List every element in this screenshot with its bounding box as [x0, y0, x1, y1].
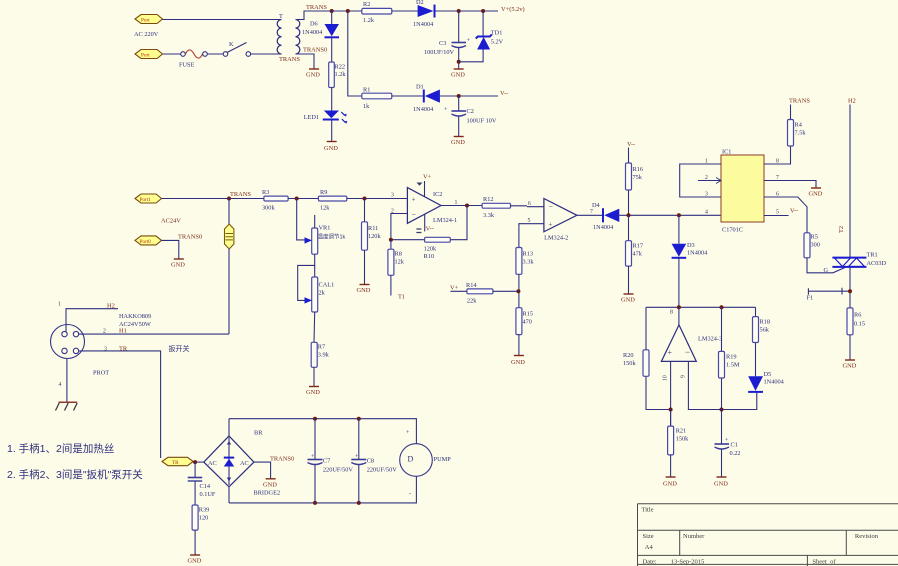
wire switch to transformer primary bottom [251, 53, 282, 55]
svg-text:V+(5.2v): V+(5.2v) [501, 6, 525, 13]
node C14 junction [193, 460, 197, 464]
diode D3 1N4004 [672, 242, 709, 258]
op-amp LM324-1 [407, 188, 457, 224]
svg-text:R22: R22 [335, 64, 346, 71]
svg-text:V--: V-- [627, 141, 635, 148]
earth ground [59, 401, 78, 403]
svg-text:2k: 2k [319, 290, 326, 297]
wire pump bottom rail [229, 476, 416, 503]
svg-text:120: 120 [199, 515, 208, 522]
connector PROT HAKKO809 [51, 313, 152, 377]
fuse FUSE [179, 50, 207, 69]
potentiometer CAL1 [305, 277, 335, 312]
svg-text:Sheet of: Sheet of [812, 559, 836, 566]
thermistor sensor [225, 199, 234, 335]
wire R6 to gnd [849, 335, 851, 360]
resistor R5 [804, 233, 820, 258]
wire D2 to V+ [436, 10, 499, 12]
svg-text:1: 1 [58, 302, 61, 308]
svg-text:R3: R3 [262, 189, 269, 196]
ic U1 C1701C [716, 149, 764, 234]
wire pin6 to R5 [764, 197, 807, 233]
svg-text:V--: V-- [426, 226, 434, 233]
transformer T TRANS [277, 13, 300, 63]
svg-text:5: 5 [776, 210, 779, 216]
resistor R4 [788, 120, 807, 147]
svg-text:Port: Port [141, 18, 150, 24]
node F1 junction [848, 289, 852, 293]
svg-text:F1: F1 [807, 295, 814, 302]
resistor R9 [318, 189, 346, 212]
node C3 junction [457, 9, 461, 13]
node sensor junction [227, 197, 231, 201]
wire D4 to IC1 pin4 [619, 214, 721, 216]
svg-text:2: 2 [103, 329, 106, 335]
svg-text:R21: R21 [676, 428, 687, 435]
capacitor C1 0.22 [715, 437, 741, 458]
resistor R3 [262, 189, 288, 212]
svg-text:V+: V+ [423, 174, 432, 181]
resistor R10 [424, 237, 451, 260]
svg-text:R14: R14 [466, 282, 477, 289]
wire C3 to gnd node [458, 48, 460, 69]
svg-text:AC: AC [208, 460, 217, 467]
triac TR1 AC03D [832, 252, 886, 268]
wire op3 output [678, 307, 680, 325]
svg-text:IC1: IC1 [722, 149, 731, 156]
svg-text:C2: C2 [467, 108, 474, 115]
svg-text:GND: GND [188, 558, 202, 565]
svg-text:C14: C14 [200, 483, 211, 490]
svg-text:D3: D3 [687, 242, 695, 249]
svg-text:+: + [549, 221, 553, 229]
switch K [223, 41, 250, 56]
wire junction to VR1 wiper [297, 199, 306, 240]
ground under C3 [451, 69, 465, 79]
svg-text:300: 300 [811, 242, 820, 249]
svg-text:1N4004: 1N4004 [413, 21, 434, 28]
svg-text:10: 10 [663, 375, 669, 381]
wire R11 to gnd [364, 250, 366, 284]
wire R8 to T1 [390, 275, 392, 295]
node R19 top junction [720, 305, 724, 309]
svg-text:GND: GND [306, 72, 320, 79]
svg-text:Revision: Revision [855, 533, 879, 540]
led LED1 [304, 111, 348, 124]
wire pin1 H2 [66, 309, 118, 332]
svg-text:K: K [229, 41, 234, 48]
svg-text:LM324-3: LM324-3 [698, 336, 722, 343]
wire pump top rail [229, 419, 416, 444]
svg-text:TRANS: TRANS [789, 98, 810, 105]
wire R19 column [721, 307, 723, 409]
wire triac to R6 [849, 267, 851, 308]
wire pin5 V-- stub [764, 215, 789, 217]
svg-text:LM324-2: LM324-2 [544, 234, 568, 241]
resistor R14 [466, 282, 493, 305]
svg-text:R9: R9 [320, 189, 327, 196]
wire R4 to TRANS [790, 105, 792, 120]
svg-text:1.2k: 1.2k [335, 71, 347, 78]
svg-text:PROT: PROT [93, 370, 109, 377]
svg-text:−: − [412, 210, 417, 219]
node R17 junction [627, 213, 631, 217]
resistor R19 [719, 351, 740, 378]
wire pin2 H1 [79, 333, 230, 335]
svg-text:4: 4 [705, 210, 708, 216]
wire pin1 pin3 link [680, 164, 721, 197]
svg-text:GND: GND [843, 363, 857, 370]
svg-text:300k: 300k [262, 205, 275, 212]
node TRANS junction [330, 9, 334, 13]
wire transformer secondary top to TRANS node [296, 11, 332, 20]
wire C1 column [721, 410, 723, 444]
svg-text:R16: R16 [633, 166, 644, 173]
svg-text:R10: R10 [424, 253, 435, 260]
resistor R13 [516, 248, 534, 275]
svg-text:C7: C7 [323, 458, 330, 465]
op-amp LM324-3 [661, 325, 722, 362]
ground under transformer [306, 69, 320, 79]
wire R7 to gnd [313, 367, 315, 386]
node R11 junction [363, 197, 367, 201]
svg-text:AC03D: AC03D [867, 260, 887, 267]
resistor R1 [362, 87, 392, 111]
ground under C1 [714, 477, 728, 488]
wire opamp2 output to D4 [577, 214, 602, 216]
wire pin4 earth [66, 359, 68, 403]
wire pin3 TR [79, 351, 161, 458]
svg-text:H2: H2 [107, 303, 115, 310]
wire TR port to bridge [193, 461, 204, 463]
svg-text:+: + [467, 37, 471, 44]
svg-text:1k: 1k [363, 103, 370, 110]
svg-text:R18: R18 [760, 319, 771, 326]
svg-text:9: 9 [681, 375, 687, 378]
ground under R17 [621, 294, 635, 304]
wire R5 to gate [807, 258, 846, 273]
port Port1 [135, 194, 162, 203]
svg-text:GND: GND [451, 72, 465, 79]
svg-text:V--: V-- [500, 90, 508, 97]
svg-text:-: - [409, 490, 411, 497]
ground under R21 [663, 477, 677, 488]
svg-text:GND: GND [306, 389, 320, 396]
svg-text:TRANS: TRANS [306, 4, 327, 11]
wire pin5 branch [519, 224, 544, 248]
svg-text:G: G [824, 267, 829, 274]
svg-text:8: 8 [776, 159, 779, 165]
svg-text:+: + [412, 196, 416, 204]
svg-text:+: + [668, 348, 673, 357]
bridge BR BRIDGE2 [204, 430, 280, 497]
power stub V+ op1 [417, 174, 432, 197]
wire R22 to LED1 [331, 88, 333, 112]
svg-text:47k: 47k [633, 251, 643, 258]
resistor R39 [192, 505, 209, 530]
ground under R39 [188, 555, 202, 565]
wire C3 column [458, 11, 460, 42]
svg-text:7: 7 [590, 209, 593, 215]
wire R15 to gnd [518, 335, 520, 355]
wire pin8 to R4 [764, 146, 791, 164]
svg-text:7.5k: 7.5k [795, 130, 807, 137]
resistor R20 [623, 350, 649, 377]
svg-text:BR: BR [254, 430, 263, 437]
wire C2 to gnd [458, 116, 460, 136]
wire C14 column [194, 462, 196, 477]
svg-text:+: + [725, 437, 729, 444]
svg-text:220UF/50V: 220UF/50V [323, 467, 354, 474]
node R8 junction [389, 238, 393, 242]
wire CAL1 top stub [314, 265, 316, 277]
wire pin9 [688, 361, 756, 409]
svg-text:5.2V: 5.2V [491, 38, 504, 45]
svg-text:GND: GND [324, 145, 338, 152]
wire pin2 stub [698, 180, 721, 182]
ground under R6 [843, 360, 857, 370]
port TR [162, 457, 193, 466]
svg-text:TR: TR [172, 460, 179, 466]
svg-text:TRANS: TRANS [230, 191, 251, 198]
svg-text:TR: TR [119, 346, 128, 353]
svg-text:Size: Size [643, 533, 654, 540]
node TD1 junction [481, 9, 485, 13]
wire R9 to opamp pin3 [347, 198, 408, 200]
svg-text:V--: V-- [790, 208, 798, 215]
wire R13 to junction [518, 274, 520, 307]
svg-text:TRANS0: TRANS0 [303, 47, 327, 54]
resistor R2 [362, 1, 392, 24]
wire port1 to R3 [162, 198, 264, 200]
ground under R7 [306, 387, 320, 397]
svg-text:R17: R17 [633, 243, 644, 250]
wire D3 to op3 rail [678, 258, 680, 308]
svg-text:TRANS: TRANS [279, 56, 300, 63]
svg-text:2: 2 [705, 175, 708, 181]
svg-text:D6: D6 [310, 21, 318, 28]
svg-text:CAL1: CAL1 [319, 282, 335, 289]
power stub V-- op1 [416, 214, 433, 232]
svg-text:GND: GND [809, 191, 823, 198]
svg-text:GND: GND [714, 481, 728, 488]
svg-text:GND: GND [451, 139, 465, 146]
svg-text:R39: R39 [199, 507, 210, 514]
op-amp LM324-2 [544, 199, 577, 242]
svg-text:4: 4 [59, 382, 62, 388]
resistor R6 [847, 308, 865, 335]
svg-text:R12: R12 [483, 196, 494, 203]
wire R16 to pin4 row [628, 190, 630, 215]
svg-text:75k: 75k [633, 174, 643, 181]
resistor R8 [388, 249, 405, 275]
svg-text:3.9k: 3.9k [318, 352, 330, 359]
wire R21 to gnd [670, 455, 672, 477]
node C7 top junction [313, 417, 317, 421]
node C2 junction [457, 94, 461, 98]
port AC220V line1 [135, 15, 163, 24]
svg-text:V+: V+ [450, 285, 459, 292]
svg-text:0.22: 0.22 [730, 450, 741, 457]
wire D6 to R22 [331, 37, 333, 62]
svg-text:A4: A4 [645, 544, 654, 551]
capacitor C7 220UF/50V [308, 453, 354, 474]
svg-text:220UF/50V: 220UF/50V [367, 467, 398, 474]
wire transformer secondary bottom to gnd [296, 54, 315, 69]
wire R8 column [390, 240, 392, 250]
wire TRANS node to R2 [332, 10, 362, 12]
wire R39 to gnd [194, 530, 196, 554]
svg-text:0.15: 0.15 [854, 321, 865, 328]
wire C1 to gnd [721, 449, 723, 477]
wire R1 to D1 [392, 95, 423, 97]
wire pin10 [670, 361, 672, 426]
wire R21 column [670, 410, 672, 427]
svg-text:Title: Title [642, 507, 654, 514]
capacitor C14 0.1UF [188, 478, 216, 499]
svg-text:1N4004: 1N4004 [413, 106, 434, 113]
svg-text:6: 6 [776, 192, 779, 198]
node cap-zener junction [457, 60, 461, 64]
node C1 junction [720, 408, 724, 412]
wire V+ to R14 [451, 290, 467, 292]
resistor R22 [329, 62, 347, 88]
diode D2 1N4004 [413, 0, 435, 28]
ground bridge [263, 479, 277, 489]
svg-text:1N4004: 1N4004 [764, 379, 785, 386]
ground under LED1 [324, 142, 338, 153]
svg-text:1: 1 [705, 159, 708, 165]
svg-text:AC: AC [240, 460, 249, 467]
resistor R16 [626, 163, 644, 190]
diode D1 1N4004 [413, 84, 440, 114]
svg-text:3: 3 [104, 347, 107, 353]
svg-text:150k: 150k [623, 360, 636, 367]
svg-text:C8: C8 [367, 458, 374, 465]
resistor R18 [753, 317, 771, 343]
node R14 junction [516, 289, 520, 293]
svg-text:1: 1 [455, 200, 458, 206]
svg-text:AC24V: AC24V [161, 218, 181, 225]
title block [638, 504, 898, 566]
node C7 bottom junction [313, 501, 317, 505]
svg-text:Port: Port [141, 53, 150, 59]
svg-text:3: 3 [705, 192, 708, 198]
capacitor C3 100UF/10V [424, 37, 471, 56]
motor PUMP [400, 429, 452, 497]
svg-text:1.5M: 1.5M [726, 362, 740, 369]
resistor R17 [626, 241, 644, 266]
node VR1 junction [295, 197, 299, 201]
fuse F1 [807, 288, 849, 302]
zener TD1 5.2V [476, 30, 504, 50]
resistor R12 [482, 196, 510, 219]
svg-text:R6: R6 [854, 312, 861, 319]
node C8 top junction [357, 417, 361, 421]
svg-text:IC2: IC2 [433, 191, 442, 198]
node junction R1 branch [346, 9, 350, 13]
wire R18 column [755, 307, 757, 376]
svg-text:R11: R11 [368, 225, 378, 232]
resistor R11 [362, 222, 382, 250]
svg-text:1N4004: 1N4004 [687, 250, 708, 257]
diode D5 1N4004 [748, 371, 784, 392]
svg-text:R8: R8 [395, 251, 402, 258]
wire C2 column [458, 96, 460, 111]
svg-text:扳开关: 扳开关 [169, 344, 190, 353]
svg-text:C1: C1 [731, 442, 738, 449]
svg-text:Number: Number [683, 533, 705, 540]
svg-text:HAKKO809: HAKKO809 [119, 313, 151, 320]
resistor R15 [516, 308, 533, 335]
resistor R21 [668, 426, 690, 455]
svg-text:TR1: TR1 [867, 252, 878, 259]
svg-text:3.3k: 3.3k [523, 259, 535, 266]
ground under port0 [171, 259, 185, 269]
svg-text:470: 470 [523, 319, 532, 326]
svg-text:56k: 56k [760, 327, 770, 334]
wire R14 to junction [493, 290, 519, 292]
svg-text:R13: R13 [523, 251, 534, 258]
svg-text:BRIDGE2: BRIDGE2 [254, 490, 281, 497]
svg-text:Date:: Date: [643, 559, 657, 566]
wire TD1 column [482, 11, 484, 37]
wire C8 column [358, 419, 360, 503]
svg-text:13-Sep-2015: 13-Sep-2015 [671, 559, 705, 566]
svg-text:GND: GND [511, 359, 525, 366]
svg-text:12k: 12k [395, 259, 405, 266]
wire R2 to D2 [392, 10, 418, 12]
ground under R15 [511, 356, 525, 367]
svg-text:TRANS0: TRANS0 [178, 234, 202, 241]
potentiometer VR1 [305, 215, 346, 254]
svg-text:D: D [408, 455, 414, 464]
svg-text:GND: GND [171, 262, 185, 269]
svg-text:+: + [406, 429, 410, 436]
svg-text:FUSE: FUSE [179, 62, 195, 69]
svg-text:LED1: LED1 [304, 114, 319, 121]
svg-text:150k: 150k [676, 436, 689, 443]
svg-text:GND: GND [263, 482, 277, 489]
capacitor C8 220UF/50V [351, 453, 397, 474]
wire D3 column top [678, 215, 680, 243]
svg-text:R4: R4 [795, 122, 803, 129]
svg-text:120k: 120k [368, 233, 381, 240]
svg-text:5: 5 [528, 218, 531, 224]
svg-text:120k: 120k [424, 246, 437, 253]
svg-text:−: − [549, 203, 554, 212]
wire VR1 bottom to CAL1 [298, 254, 315, 300]
svg-text:+: + [355, 453, 359, 460]
node C8 bottom junction [357, 501, 361, 505]
wire pin7 to gnd [764, 181, 816, 188]
wire down to R1 row [348, 11, 362, 96]
svg-text:D1: D1 [416, 84, 424, 91]
wire left side R20 [646, 307, 671, 409]
port AC220V line2 [135, 50, 163, 59]
svg-text:+: + [444, 106, 448, 113]
svg-text:0.1UF: 0.1UF [200, 491, 216, 498]
svg-text:GND: GND [663, 481, 677, 488]
wire D6 column from TRANS node [331, 11, 333, 24]
wire D1 to V- [440, 95, 498, 97]
port Port0 [135, 236, 162, 245]
svg-text:2. 手柄2、3间是"扳机"泵开关: 2. 手柄2、3间是"扳机"泵开关 [7, 468, 143, 481]
svg-text:3.3k: 3.3k [483, 212, 495, 219]
wire R17 column [628, 215, 630, 240]
svg-text:12k: 12k [320, 205, 330, 212]
svg-text:C3: C3 [439, 40, 446, 47]
